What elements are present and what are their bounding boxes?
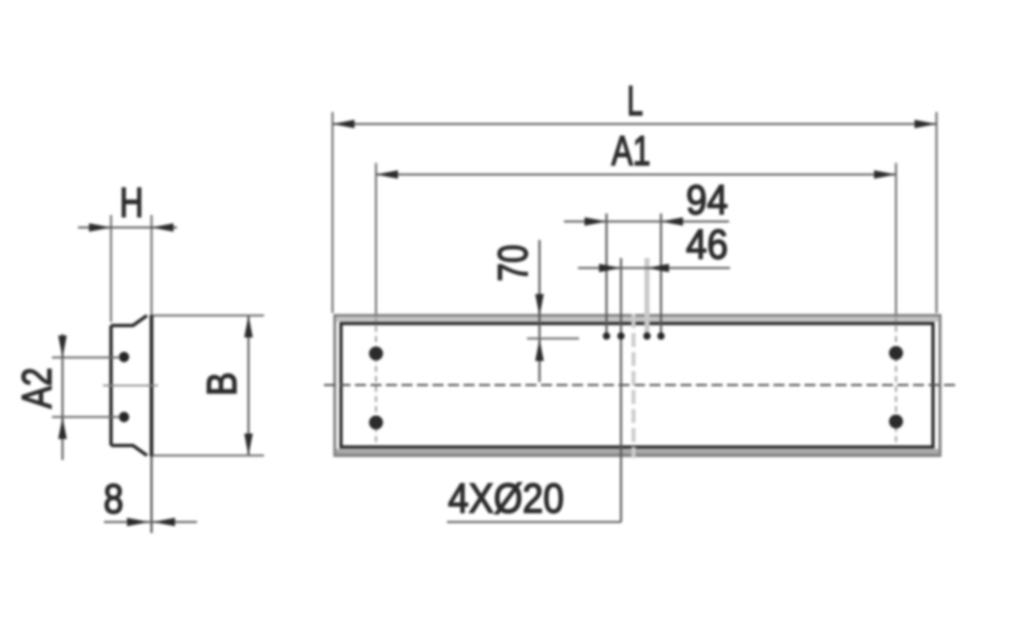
left hole column centerline — [375, 316, 377, 442]
left view back plate edge — [150, 315, 154, 457]
center hole 2 — [617, 332, 624, 339]
left view part profile — [111, 316, 147, 456]
part outer outline — [335, 316, 940, 456]
dimension H line — [78, 226, 177, 228]
dimension 94 line — [564, 220, 729, 222]
svg-text:94: 94 — [686, 176, 728, 223]
dimension 70 extension line — [527, 338, 579, 340]
right hole column centerline — [895, 316, 897, 442]
dimension L extension line right — [936, 112, 938, 313]
dimension 46 extension line right — [645, 258, 650, 335]
dimension 94 extension line right — [660, 214, 662, 337]
dimension A1 arrow left — [376, 170, 398, 179]
center hole 1 — [603, 332, 610, 339]
dimension L arrow left — [333, 120, 355, 129]
dimension 46 arrow right — [647, 264, 669, 273]
center hole 4 — [657, 332, 664, 339]
dimension A1 arrow right — [874, 170, 896, 179]
dimension L arrow right — [915, 120, 937, 129]
dimension H arrow left — [89, 223, 111, 232]
dimension A2 arrow lower — [58, 417, 67, 439]
svg-text:46: 46 — [686, 221, 728, 268]
part horizontal centerline — [324, 384, 955, 386]
dimension 8 arrow right — [153, 518, 175, 527]
dimension 70 arrow upper — [535, 294, 544, 316]
dimension 46 arrow left — [599, 264, 621, 273]
dimension A2 extension line upper — [52, 357, 120, 359]
left hole lower — [369, 416, 383, 430]
dimension L line — [333, 123, 937, 125]
left hole upper — [369, 347, 383, 361]
dimension A1 extension line right — [895, 163, 897, 315]
svg-text:70: 70 — [489, 245, 536, 282]
svg-text:B: B — [198, 372, 245, 396]
dimension 46 line — [578, 267, 730, 269]
svg-text:H: H — [120, 179, 144, 226]
hole leader line horizontal — [447, 521, 621, 523]
dimension 46 extension line left — [620, 258, 622, 336]
dimension B extension line upper — [153, 315, 264, 317]
dimension B arrow lower — [244, 434, 253, 456]
svg-text:8: 8 — [104, 475, 124, 522]
part top face strip — [336, 318, 939, 322]
left view hole upper — [119, 352, 129, 362]
right hole lower — [889, 415, 903, 429]
svg-text:A2: A2 — [13, 368, 60, 409]
svg-text:A1: A1 — [612, 127, 651, 174]
dimension H arrow right — [152, 223, 174, 232]
dimension B line — [247, 316, 249, 456]
dimension H extension line right — [151, 215, 153, 314]
svg-text:4XØ20: 4XØ20 — [448, 475, 564, 522]
right hole upper — [889, 346, 903, 360]
dimension 70 arrow lower — [535, 339, 544, 361]
dimension H extension line left — [110, 215, 112, 322]
dimension A2 extension line lower — [52, 416, 120, 418]
dimension 8 extension line — [150, 456, 152, 533]
part center seam line — [632, 314, 636, 458]
part bottom face strip — [336, 449, 939, 454]
dimension 8 line — [104, 521, 197, 523]
dimension A2 line — [61, 334, 63, 460]
dimension 94 arrow right — [661, 217, 683, 226]
dimension 70 line — [538, 240, 540, 382]
hole leader line vertical — [620, 339, 622, 522]
center hole 3 — [643, 332, 650, 339]
dimension B arrow upper — [244, 316, 253, 338]
svg-text:L: L — [627, 77, 643, 124]
dimension L extension line left — [332, 112, 334, 313]
part inner outline — [341, 324, 933, 448]
dimension A1 extension line left — [375, 163, 377, 315]
left view hole lower — [119, 412, 129, 422]
dimension A1 line — [376, 173, 896, 175]
dimension 94 arrow left — [585, 217, 607, 226]
dimension 8 arrow left — [127, 518, 149, 527]
dimension 94 extension line left — [605, 214, 607, 337]
left view centerline — [103, 385, 158, 387]
dimension A2 arrow upper — [58, 336, 67, 358]
dimension B extension line lower — [153, 455, 264, 457]
